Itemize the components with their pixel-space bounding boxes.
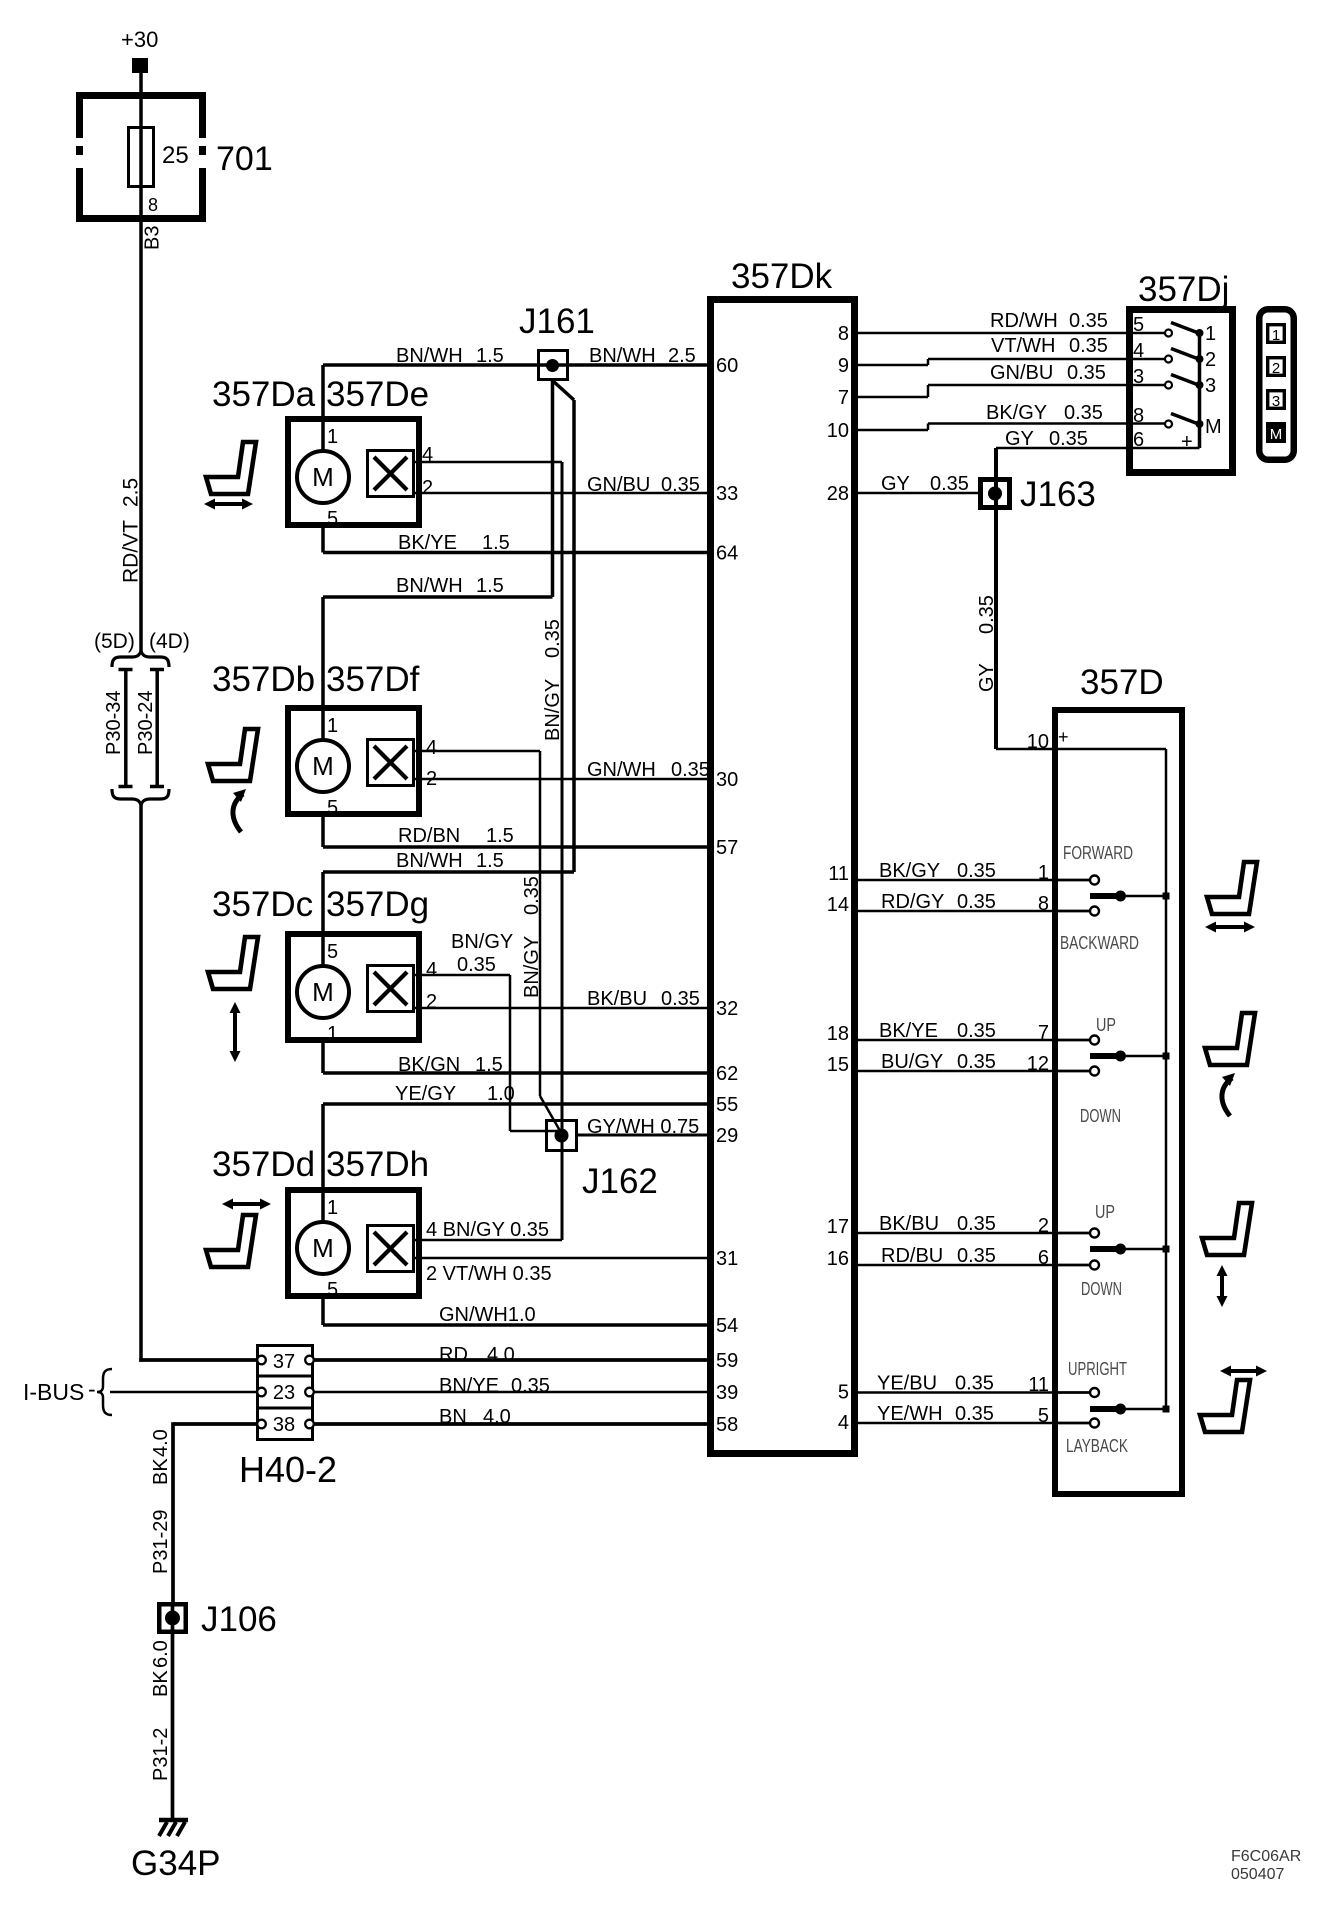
position sensor of 357Dg <box>368 966 414 1012</box>
wire YE/GY 1.0 from 357Dd pin 1 to 357Dk pin 55 <box>321 1104 325 1223</box>
wire BK/GY 0.35 from 357Dk pin 10 to 357Dj pin 8 <box>858 429 928 432</box>
H40-2 pin contacts <box>257 1356 266 1365</box>
switch contact row 3 of 357Dj <box>1171 375 1199 386</box>
svg-text:+30: +30 <box>121 27 158 52</box>
svg-text:F6C06AR: F6C06AR <box>1231 1848 1301 1865</box>
svg-text:11: 11 <box>828 863 849 885</box>
svg-text:3: 3 <box>1272 393 1280 410</box>
svg-text:4 BN/GY 0.35: 4 BN/GY 0.35 <box>426 1219 549 1241</box>
wire RD/BN 1.5 from 357Db pin 5 to 357Dk pin 57 <box>321 817 325 847</box>
svg-text:0.35: 0.35 <box>1064 402 1103 424</box>
svg-text:357Db: 357Db <box>212 660 315 699</box>
svg-text:GY: GY <box>881 473 910 495</box>
wire VT/WH 0.35 from 357Dh pin 2 to 357Dk pin 31 <box>415 1257 707 1260</box>
wire BN/WH 1.5 bus from J161 down to 357Db pin 1 <box>551 381 555 597</box>
svg-text:RD/VT: RD/VT <box>120 520 143 583</box>
svg-text:1.5: 1.5 <box>486 825 514 847</box>
svg-text:BU/GY: BU/GY <box>881 1051 943 1073</box>
svg-text:GY/WH 0.75: GY/WH 0.75 <box>587 1116 699 1138</box>
seat icon slide adjust for 357D <box>1207 862 1257 914</box>
svg-text:BK/GN: BK/GN <box>398 1054 460 1076</box>
svg-text:M: M <box>312 1233 334 1263</box>
svg-text:0.35: 0.35 <box>957 1213 996 1235</box>
svg-text:B3: B3 <box>142 226 164 250</box>
svg-text:M: M <box>312 977 334 1007</box>
svg-text:GN/BU: GN/BU <box>587 474 650 496</box>
seat icon tilt adjust for 357Db <box>208 729 258 781</box>
svg-text:LAYBACK: LAYBACK <box>1066 1436 1128 1456</box>
svg-text:RD/BN: RD/BN <box>398 825 460 847</box>
svg-text:1: 1 <box>327 715 338 737</box>
wire BN/GY 0.35 from 357Dh pin 4 to J162 branch <box>415 1239 562 1242</box>
svg-text:UP: UP <box>1096 1015 1116 1035</box>
svg-text:BN/WH: BN/WH <box>396 345 463 367</box>
svg-text:BK: BK <box>150 1458 172 1485</box>
seat motor 357Da / switch unit 357De housing <box>288 419 419 525</box>
svg-text:60: 60 <box>716 355 738 377</box>
svg-text:H40-2: H40-2 <box>239 1449 337 1490</box>
svg-text:BN/GY: BN/GY <box>451 931 513 953</box>
svg-text:0.35: 0.35 <box>957 891 996 913</box>
wire BN/GY 0.35 from 357De pin 4 down to junction J162 <box>415 461 562 464</box>
legend button 2 <box>1268 358 1285 376</box>
wire GY/WH 0.75 from J162 to 357Dk pin 29 <box>578 1134 707 1137</box>
svg-text:0.35: 0.35 <box>957 1245 996 1267</box>
wire BK/GN 1.5 from 357Dc pin 1 to 357Dk pin 62 <box>321 1043 325 1073</box>
svg-text:4.0: 4.0 <box>150 1429 172 1457</box>
wire BK/BU 0.35 from 357Dk to 357D <box>858 1232 1090 1235</box>
svg-text:5: 5 <box>327 508 338 530</box>
svg-text:UPRIGHT: UPRIGHT <box>1068 1359 1127 1379</box>
svg-text:GN/BU: GN/BU <box>990 362 1053 384</box>
svg-text:1.5: 1.5 <box>475 1054 503 1076</box>
svg-text:30: 30 <box>716 769 738 791</box>
svg-text:25: 25 <box>162 142 189 169</box>
svg-text:2: 2 <box>422 477 433 499</box>
connector pin P30-24 (4D variant) <box>155 668 159 788</box>
svg-text:0.35: 0.35 <box>930 473 969 495</box>
svg-text:10: 10 <box>827 420 849 442</box>
wire plus feed inside 357D to common bus <box>996 748 1166 751</box>
wire VT/WH 0.35 from 357Dk pin 9 to 357Dj pin 4 <box>858 364 928 367</box>
memory button legend panel <box>1259 309 1294 460</box>
357D common bus <box>1165 749 1168 1409</box>
motor M of 357Da <box>297 451 349 503</box>
svg-text:BK: BK <box>150 1670 172 1697</box>
svg-text:0.35: 0.35 <box>955 1403 994 1425</box>
svg-text:5: 5 <box>327 1279 338 1301</box>
junction J161 <box>539 351 568 380</box>
seat motor 357Dd / switch unit 357Dh housing <box>288 1190 419 1296</box>
svg-text:2: 2 <box>1272 360 1280 377</box>
svg-text:M: M <box>312 751 334 781</box>
svg-text:38: 38 <box>273 1414 295 1436</box>
svg-text:BN/WH: BN/WH <box>396 575 463 597</box>
seat icon tilt adjust for 357D <box>1205 1013 1255 1065</box>
svg-text:14: 14 <box>827 894 849 916</box>
wire BN 4.0 from H40-2 pin 38 to 357Dk pin 58 <box>314 1422 707 1426</box>
wire BK 6.0 P31-2 from J106 to ground G34P <box>171 1634 175 1820</box>
svg-text:1: 1 <box>327 1023 338 1045</box>
svg-text:4.0: 4.0 <box>483 1406 511 1428</box>
seat motor 357Dc / switch unit 357Dg housing <box>288 934 419 1040</box>
motor M of 357Db <box>297 740 349 792</box>
svg-text:1: 1 <box>1038 862 1049 884</box>
svg-text:357Dk: 357Dk <box>731 257 833 296</box>
seat icon height adjust for 357Dc <box>208 937 258 989</box>
svg-text:17: 17 <box>827 1216 849 1238</box>
legend button 1 <box>1268 325 1285 343</box>
svg-text:YE/WH: YE/WH <box>877 1403 943 1425</box>
svg-text:RD: RD <box>439 1344 468 1366</box>
svg-text:15: 15 <box>827 1054 849 1076</box>
motor M of 357Dd <box>297 1222 349 1274</box>
svg-text:54: 54 <box>716 1315 738 1337</box>
svg-text:2: 2 <box>1205 349 1216 371</box>
svg-text:1.5: 1.5 <box>476 850 504 872</box>
connector pin P30-34 (5D variant) <box>124 668 128 788</box>
wire BN/YE 0.35 from H40-2 pin 23 to 357Dk pin 39 <box>314 1391 707 1394</box>
motor M of 357Dc <box>297 966 349 1018</box>
svg-text:31: 31 <box>716 1248 738 1270</box>
svg-text:357De: 357De <box>326 375 429 414</box>
svg-text:6.0: 6.0 <box>150 1640 172 1668</box>
position sensor of 357De <box>368 451 414 497</box>
svg-text:5: 5 <box>327 797 338 819</box>
svg-text:GN/WH1.0: GN/WH1.0 <box>439 1304 536 1326</box>
svg-text:0.35: 0.35 <box>1067 362 1106 384</box>
svg-text:4: 4 <box>838 1412 849 1434</box>
svg-text:0.35: 0.35 <box>661 474 700 496</box>
ground G34P chassis symbol <box>159 1818 188 1823</box>
svg-text:P30-24: P30-24 <box>135 691 157 756</box>
svg-text:BK/YE: BK/YE <box>879 1020 938 1042</box>
svg-text:5: 5 <box>327 941 338 963</box>
wire BN/GY 0.35 from 357Df pin 4 down to junction J162 <box>415 750 540 753</box>
seat motor 357Db / switch unit 357Df housing <box>288 708 419 814</box>
svg-text:23: 23 <box>273 1382 295 1404</box>
svg-text:-: - <box>88 1376 96 1402</box>
svg-text:0.35: 0.35 <box>955 1373 994 1395</box>
wire RD/GY 0.35 from 357Dk to 357D <box>858 910 1090 913</box>
svg-text:RD/BU: RD/BU <box>881 1245 943 1267</box>
svg-text:BK/GY: BK/GY <box>986 402 1047 424</box>
wire GN/BU 0.35 from 357Dk pin 7 to 357Dj pin 3 <box>858 396 928 399</box>
svg-text:YE/BU: YE/BU <box>877 1373 937 1395</box>
wire RD/VT 2.5 feed from +30 through fuse 701 down to P30 connector <box>139 73 143 652</box>
wire GY 0.35 from 357Dk pin 28 to junction J163 <box>858 492 978 495</box>
svg-text:0.35: 0.35 <box>457 954 496 976</box>
fuse element 25A inside 701 <box>129 128 154 187</box>
memory switch 357Dj housing <box>1130 310 1233 473</box>
svg-text:59: 59 <box>716 1350 738 1372</box>
wire BN/WH 1.5 from 357Da pin 1 to junction J161 <box>321 365 325 452</box>
position sensor of 357Df <box>368 740 414 786</box>
wire GN/WH 0.35 from 357Df pin 2 to 357Dk pin 30 <box>415 778 707 781</box>
svg-text:+: + <box>1181 431 1193 453</box>
svg-text:8: 8 <box>1038 893 1049 915</box>
svg-text:0.35: 0.35 <box>511 1375 550 1397</box>
wire BK/BU 0.35 from 357Dg pin 2 to 357Dk pin 32 <box>415 1007 707 1010</box>
wire BN/GY 0.35 from 357Dg pin 4 to junction J162 <box>415 974 510 977</box>
svg-text:357Da: 357Da <box>212 375 316 414</box>
wire GN/WH 1.0 from 357Dd pin 5 to 357Dk pin 54 <box>321 1299 325 1325</box>
svg-text:55: 55 <box>716 1094 738 1116</box>
svg-text:0.35: 0.35 <box>957 860 996 882</box>
svg-text:8: 8 <box>1133 405 1144 427</box>
svg-text:J161: J161 <box>519 302 595 341</box>
svg-text:GY: GY <box>976 663 998 692</box>
position sensor of 357Dh <box>368 1226 414 1272</box>
svg-text:M: M <box>1205 416 1222 438</box>
svg-text:33: 33 <box>716 483 738 505</box>
svg-text:5: 5 <box>838 1382 849 1404</box>
svg-text:M: M <box>1270 426 1283 443</box>
wire RD feed continues to H40-2 pin 37 <box>139 804 143 1362</box>
svg-text:5: 5 <box>1038 1405 1049 1427</box>
wire GY 0.35 from J163 down to 357D pin 10 <box>994 510 998 749</box>
svg-text:1.5: 1.5 <box>482 532 510 554</box>
svg-text:DOWN: DOWN <box>1080 1106 1121 1126</box>
switch contact row 2 of 357Dj <box>1171 349 1199 360</box>
wire RD/WH 0.35 from 357Dk pin 8 to 357Dj pin 5 <box>858 332 1165 335</box>
svg-text:57: 57 <box>716 837 738 859</box>
switch contact row 1 of 357Dj <box>1171 323 1199 334</box>
svg-text:4: 4 <box>426 959 437 981</box>
svg-text:2 VT/WH 0.35: 2 VT/WH 0.35 <box>426 1263 552 1285</box>
svg-text:5: 5 <box>1133 314 1144 336</box>
svg-text:28: 28 <box>827 483 849 505</box>
svg-text:YE/GY: YE/GY <box>395 1083 456 1105</box>
wire I-BUS to H40-2 pin 23 <box>110 1391 256 1394</box>
wire BK/YE 1.5 from 357Da pin 5 to 357Dk pin 64 <box>321 528 325 553</box>
seat icon slide adjust for 357Da <box>206 442 256 494</box>
svg-text:18: 18 <box>827 1023 849 1045</box>
svg-text:8: 8 <box>838 323 849 345</box>
seat icon recline adjust for 357Dd <box>206 1215 256 1267</box>
svg-text:1.0: 1.0 <box>487 1083 515 1105</box>
svg-text:357D: 357D <box>1080 663 1164 702</box>
svg-text:UP: UP <box>1095 1202 1115 1222</box>
wire BK 4.0 P31-29 from H40-2 pin 38 to J106 <box>171 1422 175 1602</box>
svg-text:1: 1 <box>327 1197 338 1219</box>
fuse holder 701 housing (dashed border) <box>76 92 206 99</box>
svg-text:+: + <box>1058 727 1069 747</box>
svg-text:357Dj: 357Dj <box>1138 270 1229 309</box>
wire RD/BU 0.35 from 357Dk to 357D <box>858 1264 1090 1267</box>
svg-text:0.35: 0.35 <box>661 988 700 1010</box>
svg-text:FORWARD: FORWARD <box>1063 843 1133 863</box>
svg-text:I-BUS: I-BUS <box>23 1379 84 1405</box>
svg-text:2: 2 <box>426 991 437 1013</box>
svg-text:GN/WH: GN/WH <box>587 759 656 781</box>
svg-text:7: 7 <box>1038 1022 1049 1044</box>
svg-text:357Dd: 357Dd <box>212 1145 315 1184</box>
svg-text:1: 1 <box>1272 327 1280 344</box>
svg-text:2.5: 2.5 <box>668 345 696 367</box>
svg-text:0.35: 0.35 <box>1069 335 1108 357</box>
svg-text:BACKWARD: BACKWARD <box>1060 933 1139 953</box>
svg-text:0.35: 0.35 <box>976 595 998 634</box>
svg-text:701: 701 <box>216 140 273 178</box>
connector brace top <box>112 651 169 667</box>
svg-text:357Dg: 357Dg <box>326 885 429 924</box>
control module 357Dk housing <box>711 300 855 1454</box>
svg-text:29: 29 <box>716 1125 738 1147</box>
svg-text:P31-29: P31-29 <box>150 1510 172 1575</box>
svg-text:BN/WH: BN/WH <box>396 850 463 872</box>
wire BK/GY 0.35 from 357Dk to 357D <box>858 879 1090 882</box>
svg-text:357Dh: 357Dh <box>326 1145 429 1184</box>
wire BU/GY 0.35 from 357Dk to 357D <box>858 1070 1090 1073</box>
svg-text:0.35: 0.35 <box>957 1051 996 1073</box>
legend button M <box>1268 424 1285 442</box>
seat icon recline adjust for 357D <box>1200 1380 1250 1432</box>
svg-text:0.35: 0.35 <box>671 759 710 781</box>
svg-text:1.5: 1.5 <box>476 575 504 597</box>
svg-text:12: 12 <box>1027 1053 1049 1075</box>
svg-text:BN: BN <box>439 1406 467 1428</box>
svg-text:2: 2 <box>1038 1215 1049 1237</box>
svg-text:7: 7 <box>838 387 849 409</box>
svg-text:RD/WH: RD/WH <box>990 310 1058 332</box>
svg-text:357Dc: 357Dc <box>212 885 313 924</box>
svg-text:39: 39 <box>716 1382 738 1404</box>
svg-text:16: 16 <box>827 1248 849 1270</box>
svg-text:P30-34: P30-34 <box>103 691 125 756</box>
svg-text:G34P: G34P <box>131 1844 221 1883</box>
svg-text:11: 11 <box>1028 1374 1049 1396</box>
svg-text:DOWN: DOWN <box>1081 1279 1122 1299</box>
svg-text:8: 8 <box>148 195 158 215</box>
svg-text:RD/GY: RD/GY <box>881 891 944 913</box>
svg-text:050407: 050407 <box>1231 1866 1284 1883</box>
junction J106 <box>159 1604 186 1632</box>
connector brace bottom <box>112 789 169 805</box>
svg-text:37: 37 <box>273 1351 295 1373</box>
svg-text:6: 6 <box>1038 1247 1049 1269</box>
switch contact row 4 of 357Dj <box>1171 414 1199 425</box>
svg-text:58: 58 <box>716 1414 738 1436</box>
svg-text:6: 6 <box>1133 429 1144 451</box>
svg-text:J163: J163 <box>1020 475 1096 514</box>
svg-text:3: 3 <box>1205 375 1216 397</box>
svg-text:9: 9 <box>838 355 849 377</box>
svg-text:(5D): (5D) <box>94 630 135 653</box>
svg-text:BK/BU: BK/BU <box>879 1213 939 1235</box>
svg-text:VT/WH: VT/WH <box>991 335 1055 357</box>
svg-text:BK/BU: BK/BU <box>587 988 647 1010</box>
wire BK/YE 0.35 from 357Dk to 357D <box>858 1039 1090 1042</box>
legend button 3 <box>1268 391 1285 409</box>
svg-text:0.35: 0.35 <box>1069 310 1108 332</box>
svg-text:1.5: 1.5 <box>476 345 504 367</box>
svg-text:32: 32 <box>716 998 738 1020</box>
svg-text:2.5: 2.5 <box>120 478 143 507</box>
svg-text:GY: GY <box>1005 428 1034 450</box>
junction J163 <box>981 480 1010 508</box>
svg-text:0.35: 0.35 <box>1049 428 1088 450</box>
svg-text:J162: J162 <box>582 1162 658 1201</box>
svg-text:0.35: 0.35 <box>521 876 543 915</box>
seat adjustment switch 357D housing <box>1055 710 1182 1494</box>
svg-text:BN/GY: BN/GY <box>542 679 564 741</box>
svg-text:BN/YE: BN/YE <box>439 1375 499 1397</box>
connector H40-2 housing <box>258 1346 313 1440</box>
svg-text:4: 4 <box>1133 340 1144 362</box>
wire RD 4.0 from H40-2 pin 37 to 357Dk pin 59 <box>314 1358 707 1362</box>
wire GN/BU 0.35 from 357De pin 2 to 357Dk pin 33 <box>415 492 707 495</box>
svg-text:BK/YE: BK/YE <box>398 532 457 554</box>
wire YE/WH 0.35 from 357Dk to 357D <box>858 1422 1090 1425</box>
svg-text:0.35: 0.35 <box>957 1020 996 1042</box>
svg-text:P31-2: P31-2 <box>150 1728 172 1781</box>
svg-text:BN/WH: BN/WH <box>589 345 656 367</box>
wire YE/BU 0.35 from 357Dk to 357D <box>858 1391 1090 1394</box>
svg-text:M: M <box>312 462 334 492</box>
svg-text:J106: J106 <box>201 1600 277 1639</box>
svg-text:1: 1 <box>1205 323 1216 345</box>
svg-text:0.35: 0.35 <box>542 619 564 658</box>
svg-text:BN/GY: BN/GY <box>521 936 543 998</box>
svg-text:4: 4 <box>426 737 437 759</box>
357Dj common bar <box>1198 333 1202 448</box>
svg-text:4.0: 4.0 <box>487 1344 515 1366</box>
svg-text:BK/GY: BK/GY <box>879 860 940 882</box>
svg-text:(4D): (4D) <box>149 630 190 653</box>
svg-text:64: 64 <box>716 543 738 565</box>
junction J162 <box>547 1121 577 1151</box>
svg-text:62: 62 <box>716 1063 738 1085</box>
svg-text:357Df: 357Df <box>326 660 420 699</box>
seat icon height adjust for 357D <box>1202 1203 1252 1255</box>
svg-text:1: 1 <box>327 426 338 448</box>
svg-text:3: 3 <box>1133 366 1144 388</box>
wire GY 0.35 from 357Dj pin 6 down to junction J163 <box>996 447 1200 450</box>
wire BN/WH 1.5 from J161 via diagonal down to 357Dc pin 5 <box>553 381 574 400</box>
